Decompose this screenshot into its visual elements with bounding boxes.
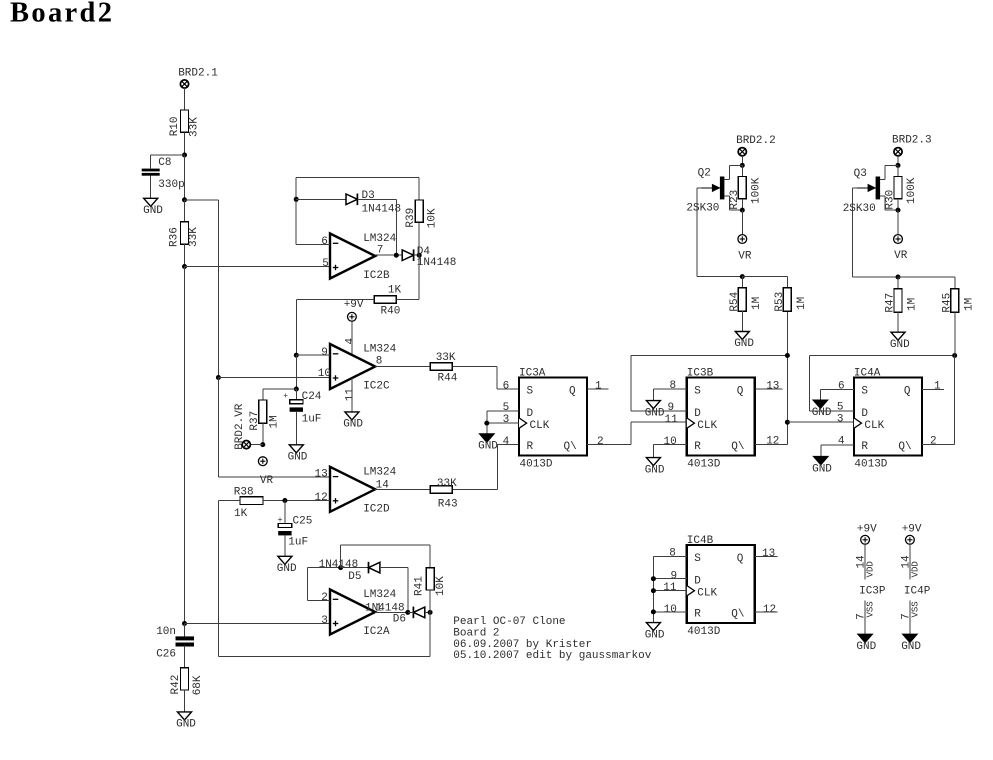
wire source xyxy=(880,195,885,197)
wire xyxy=(741,210,743,235)
power VR xyxy=(258,457,267,466)
wire CLK IC4B xyxy=(653,590,686,592)
svg-text:IC2D: IC2D xyxy=(363,503,390,515)
wire xyxy=(414,254,420,256)
svg-text:11: 11 xyxy=(663,582,677,594)
junction xyxy=(651,609,656,614)
wire xyxy=(884,196,886,210)
svg-text:4013D: 4013D xyxy=(687,459,720,471)
wire xyxy=(184,267,186,624)
wire xyxy=(219,500,241,502)
wire xyxy=(250,444,263,446)
wire xyxy=(263,500,330,502)
wire xyxy=(284,501,286,524)
svg-text:LM324: LM324 xyxy=(363,466,396,478)
resistor R30 xyxy=(894,177,902,199)
wire xyxy=(407,568,409,613)
svg-text:BRD2.2: BRD2.2 xyxy=(736,135,776,147)
ground xyxy=(289,445,303,453)
svg-text:Q\: Q\ xyxy=(731,609,744,621)
svg-text:R42: R42 xyxy=(170,675,182,695)
svg-text:GND: GND xyxy=(812,463,832,475)
svg-text:R30: R30 xyxy=(885,190,897,210)
svg-text:CLK: CLK xyxy=(864,420,884,432)
svg-text:VDD: VDD xyxy=(910,561,920,577)
svg-text:LM324: LM324 xyxy=(363,589,396,601)
svg-text:D6: D6 xyxy=(393,613,406,625)
transistor Q2 xyxy=(720,177,725,200)
svg-text:4: 4 xyxy=(344,338,356,345)
wire xyxy=(630,422,632,444)
junction xyxy=(651,576,656,581)
diode D5 1N4148 xyxy=(368,562,370,574)
svg-text:Q2: Q2 xyxy=(698,168,711,180)
svg-text:S: S xyxy=(527,386,534,398)
resistor R53 xyxy=(783,288,791,311)
wire R IC3A xyxy=(497,443,519,445)
resistor R41 xyxy=(426,568,434,590)
svg-text:10n: 10n xyxy=(156,626,176,638)
resistor R37 xyxy=(259,400,267,423)
wire xyxy=(897,156,899,166)
diode D3 1N4148 xyxy=(346,194,357,205)
wire xyxy=(808,356,810,411)
diode D6 1N4148 xyxy=(412,607,414,619)
wire CLK IC3B xyxy=(631,421,687,423)
wire xyxy=(452,366,497,368)
wire drain xyxy=(880,179,885,181)
wire xyxy=(184,624,186,637)
wire D feedback rail IC3B xyxy=(631,355,787,357)
junction xyxy=(282,498,287,503)
op-amp IC2A xyxy=(330,590,375,635)
svg-text:1K: 1K xyxy=(388,285,402,297)
wire xyxy=(898,276,955,278)
wire Qbar IC4B stub xyxy=(755,611,778,613)
power +9V IC3P xyxy=(861,535,870,544)
svg-text:GND: GND xyxy=(645,464,665,476)
junction xyxy=(896,163,901,168)
svg-text:R38: R38 xyxy=(234,486,254,498)
resistor R42 xyxy=(181,668,189,690)
wire xyxy=(418,177,420,200)
wire xyxy=(885,164,898,166)
wire D3 anode xyxy=(296,198,346,200)
wire xyxy=(819,389,821,400)
wire xyxy=(496,444,498,489)
resistor R39 xyxy=(415,200,423,222)
wire xyxy=(295,389,297,399)
ground xyxy=(735,332,749,340)
svg-text:11: 11 xyxy=(344,388,356,402)
wire feedback bottom xyxy=(219,656,431,658)
svg-text:R53: R53 xyxy=(774,292,786,312)
svg-text:IC4B: IC4B xyxy=(687,535,714,547)
svg-text:S: S xyxy=(694,553,701,565)
svg-text:GND: GND xyxy=(478,441,498,453)
svg-text:11: 11 xyxy=(665,414,679,426)
flip-flop IC3B xyxy=(687,378,755,456)
wire xyxy=(452,488,497,490)
wire xyxy=(296,298,374,300)
svg-text:+: + xyxy=(283,392,288,401)
junction xyxy=(896,275,901,280)
wire xyxy=(429,590,431,612)
pad BRD2.VR xyxy=(242,441,250,449)
junction xyxy=(182,197,187,202)
svg-text:12: 12 xyxy=(766,436,779,448)
svg-text:C8: C8 xyxy=(158,157,171,169)
capacitor C25 xyxy=(278,523,291,527)
svg-text:2SK30: 2SK30 xyxy=(686,202,719,214)
op-amp IC2B xyxy=(330,234,375,279)
wire S IC3B xyxy=(653,388,686,390)
wire xyxy=(729,209,742,211)
svg-text:R45: R45 xyxy=(942,293,954,313)
svg-text:13: 13 xyxy=(315,469,328,481)
svg-text:Q: Q xyxy=(737,553,744,565)
junction xyxy=(428,610,433,615)
svg-text:9: 9 xyxy=(668,402,675,414)
resistor R45 xyxy=(951,289,959,312)
svg-text:C25: C25 xyxy=(293,516,313,528)
svg-text:Board2: Board2 xyxy=(10,0,114,29)
wire gate xyxy=(697,187,702,189)
wire pin4 supply xyxy=(351,321,353,355)
wire xyxy=(786,311,788,444)
wire VDD xyxy=(909,544,911,579)
wire xyxy=(954,312,956,355)
svg-text:D: D xyxy=(861,408,868,420)
svg-text:VDD: VDD xyxy=(866,561,876,577)
wire xyxy=(897,199,899,210)
svg-text:3: 3 xyxy=(503,414,510,426)
svg-text:GND: GND xyxy=(645,407,665,419)
svg-text:10: 10 xyxy=(664,436,677,448)
wire xyxy=(853,276,898,278)
wire xyxy=(396,298,419,300)
svg-text:R23: R23 xyxy=(729,190,741,210)
wire VSS xyxy=(864,601,866,635)
wire pin6 xyxy=(296,244,330,246)
wire xyxy=(728,196,730,210)
wire S IC4A xyxy=(820,388,854,390)
svg-text:10K: 10K xyxy=(435,576,447,596)
svg-text:+9V: +9V xyxy=(344,299,364,311)
wire xyxy=(295,355,297,389)
junction xyxy=(740,163,745,168)
wire xyxy=(150,176,152,199)
ground xyxy=(891,332,905,340)
resistor R47 xyxy=(894,289,902,312)
wire xyxy=(696,188,698,277)
capacitor C26 xyxy=(176,636,195,640)
transistor Q3 xyxy=(876,177,881,200)
svg-text:C26: C26 xyxy=(156,649,176,661)
ground xyxy=(646,623,660,631)
svg-text:R10: R10 xyxy=(169,116,181,136)
svg-text:GND: GND xyxy=(277,563,297,575)
svg-text:Q3: Q3 xyxy=(854,168,867,180)
wire xyxy=(217,378,219,477)
svg-text:8: 8 xyxy=(670,380,677,392)
resistor R23 xyxy=(738,177,746,199)
svg-text:GND: GND xyxy=(143,205,163,217)
svg-text:R41: R41 xyxy=(414,576,426,596)
wire D IC3B xyxy=(631,410,687,412)
wire xyxy=(295,177,297,244)
wire xyxy=(897,210,899,235)
diode D4 1N4148 xyxy=(402,250,413,261)
svg-text:1N4148: 1N4148 xyxy=(362,203,402,215)
wire R IC3B xyxy=(653,443,686,445)
wire xyxy=(150,155,152,169)
wire xyxy=(897,277,899,289)
svg-text:Q\: Q\ xyxy=(898,441,911,453)
ground xyxy=(814,457,828,465)
wire drain xyxy=(724,179,729,181)
wire xyxy=(496,367,498,390)
wire xyxy=(295,299,297,355)
capacitor C8 xyxy=(142,169,160,172)
svg-text:1M: 1M xyxy=(751,297,763,310)
svg-text:LM324: LM324 xyxy=(363,233,396,245)
junction xyxy=(405,610,410,615)
wire xyxy=(395,199,397,255)
svg-text:9: 9 xyxy=(671,570,678,582)
svg-text:S: S xyxy=(694,386,701,398)
wire xyxy=(652,389,654,401)
svg-text:R: R xyxy=(527,441,534,453)
wire Qbar IC3A xyxy=(587,443,631,445)
wire feedback top xyxy=(296,176,419,178)
svg-text:+9V: +9V xyxy=(857,524,877,536)
junction xyxy=(182,621,187,626)
svg-text:12: 12 xyxy=(315,492,328,504)
junction xyxy=(417,253,422,258)
wire xyxy=(820,445,822,457)
junction xyxy=(260,442,265,447)
svg-text:D5: D5 xyxy=(348,571,361,583)
wire output IC2A xyxy=(375,611,408,613)
wire xyxy=(652,557,654,623)
svg-text:1K: 1K xyxy=(234,508,248,520)
junction xyxy=(294,353,299,358)
wire xyxy=(897,165,899,176)
svg-text:1: 1 xyxy=(934,381,941,393)
svg-text:Q: Q xyxy=(569,386,576,398)
resistor R44 xyxy=(430,363,452,371)
svg-text:IC2A: IC2A xyxy=(363,626,390,638)
svg-text:5: 5 xyxy=(322,258,329,270)
svg-text:6: 6 xyxy=(321,236,328,248)
svg-text:Q\: Q\ xyxy=(731,441,744,453)
wire xyxy=(954,277,956,289)
wire xyxy=(741,199,743,210)
svg-text:CLK: CLK xyxy=(697,420,717,432)
junction xyxy=(394,253,399,258)
svg-text:7: 7 xyxy=(900,613,912,620)
svg-text:330p: 330p xyxy=(158,179,184,191)
svg-text:Q\: Q\ xyxy=(564,441,577,453)
svg-text:GND: GND xyxy=(812,407,832,419)
svg-text:1uF: 1uF xyxy=(288,536,308,548)
svg-text:+9V: +9V xyxy=(902,524,922,536)
svg-text:GND: GND xyxy=(734,338,754,350)
wire VDD xyxy=(864,544,866,579)
wire xyxy=(697,276,742,278)
junction xyxy=(182,264,187,269)
svg-text:33K: 33K xyxy=(436,352,456,364)
wire R IC4B xyxy=(653,611,686,613)
wire xyxy=(262,423,264,444)
junction xyxy=(785,353,790,358)
power VR xyxy=(894,235,903,244)
wire xyxy=(184,132,186,155)
svg-text:33K: 33K xyxy=(437,478,457,490)
wire xyxy=(852,188,854,277)
svg-text:2: 2 xyxy=(321,592,328,604)
wire xyxy=(340,545,342,567)
wire xyxy=(295,412,297,445)
svg-text:GND: GND xyxy=(343,419,363,431)
wire Qbar IC4A xyxy=(922,443,955,445)
wire gate xyxy=(853,187,858,189)
wire node pin5 IC2B xyxy=(185,266,331,268)
junction xyxy=(294,197,299,202)
svg-text:33K: 33K xyxy=(189,117,201,137)
wire pin2 xyxy=(308,600,330,602)
svg-text:GND: GND xyxy=(176,719,196,731)
svg-text:R43: R43 xyxy=(438,498,458,510)
wire node pin13 IC2D xyxy=(218,476,330,478)
resistor R10 xyxy=(181,110,189,132)
flip-flop IC4B xyxy=(687,545,755,623)
power +9V xyxy=(348,312,357,321)
wire output IC2B xyxy=(375,254,402,256)
svg-text:4013D: 4013D xyxy=(854,459,887,471)
wire xyxy=(184,200,186,222)
wire xyxy=(308,567,341,569)
ground xyxy=(646,401,660,409)
wire xyxy=(630,356,632,412)
ground xyxy=(646,458,660,466)
ground xyxy=(480,434,494,442)
svg-text:2: 2 xyxy=(930,436,937,448)
ground IC4P xyxy=(903,634,917,642)
svg-text:1N4148: 1N4148 xyxy=(319,559,359,571)
svg-text:GND: GND xyxy=(288,452,308,464)
wire Q IC4A stub xyxy=(922,388,944,390)
wire pin9 xyxy=(296,354,330,356)
svg-text:R39: R39 xyxy=(405,208,417,228)
wire Q IC3B stub xyxy=(755,388,783,390)
wire D3 cathode xyxy=(357,198,396,200)
wire xyxy=(262,389,264,400)
resistor R54 xyxy=(738,288,746,311)
wire xyxy=(284,535,286,556)
wire xyxy=(218,501,220,657)
svg-text:LM324: LM324 xyxy=(363,344,396,356)
wire xyxy=(729,164,742,166)
wire xyxy=(185,199,219,201)
op-amp IC2D xyxy=(330,467,375,512)
wire Q IC3A stub xyxy=(587,388,609,390)
junction xyxy=(484,421,489,426)
wire Qbar IC3B xyxy=(755,443,788,445)
svg-text:68K: 68K xyxy=(192,675,204,695)
svg-text:05.10.2007 edit by gaussmarkov: 05.10.2007 edit by gaussmarkov xyxy=(453,650,651,662)
wire xyxy=(741,165,743,176)
wire CLK IC4A xyxy=(787,421,854,423)
resistor R40 xyxy=(374,296,396,304)
svg-text:100K: 100K xyxy=(906,177,918,204)
wire VSS xyxy=(909,601,911,635)
junction xyxy=(338,565,343,570)
op-amp IC2C xyxy=(330,344,375,389)
svg-text:D: D xyxy=(527,408,534,420)
svg-text:13: 13 xyxy=(762,548,775,560)
svg-text:4: 4 xyxy=(838,436,845,448)
wire R IC4A xyxy=(821,444,854,446)
power +9V IC4P xyxy=(906,535,915,544)
svg-text:10: 10 xyxy=(318,368,331,380)
svg-text:VR: VR xyxy=(738,250,752,262)
svg-text:R54: R54 xyxy=(729,291,741,311)
svg-text:1M: 1M xyxy=(268,415,280,428)
wire D feedback rail IC4A xyxy=(809,355,954,357)
svg-text:GND: GND xyxy=(645,629,665,641)
svg-text:10K: 10K xyxy=(426,208,438,228)
resistor R36 xyxy=(181,222,189,244)
svg-text:7: 7 xyxy=(856,613,868,620)
svg-text:3: 3 xyxy=(837,414,844,426)
flip-flop IC4A xyxy=(854,378,922,456)
wire output IC2C xyxy=(375,366,430,368)
svg-text:R: R xyxy=(694,609,701,621)
pad BRD2.1 xyxy=(180,80,188,88)
svg-text:IC4A: IC4A xyxy=(854,367,881,379)
svg-text:2SK30: 2SK30 xyxy=(843,203,876,215)
svg-text:+: + xyxy=(278,516,283,525)
svg-text:C24: C24 xyxy=(302,391,322,403)
wire xyxy=(728,165,730,179)
svg-text:VR: VR xyxy=(260,475,274,487)
junction xyxy=(740,274,745,279)
svg-text:D: D xyxy=(694,576,701,588)
svg-text:4: 4 xyxy=(503,436,510,448)
wire xyxy=(184,155,186,200)
wire xyxy=(897,312,899,332)
wire xyxy=(741,311,743,331)
ground xyxy=(813,400,827,408)
flip-flop IC3A xyxy=(519,378,587,456)
junction xyxy=(216,375,221,380)
svg-text:12: 12 xyxy=(763,604,776,616)
svg-text:IC2C: IC2C xyxy=(363,381,390,393)
svg-text:4013D: 4013D xyxy=(687,626,720,638)
junction xyxy=(785,420,790,425)
svg-text:1M: 1M xyxy=(964,298,976,311)
wire xyxy=(429,612,431,656)
svg-text:IC3A: IC3A xyxy=(519,367,546,379)
wire node pin10 IC2C xyxy=(218,377,330,379)
svg-text:R36: R36 xyxy=(169,227,181,247)
svg-text:R: R xyxy=(861,441,868,453)
wire node pin3 IC2A xyxy=(185,623,331,625)
svg-text:4013D: 4013D xyxy=(520,459,553,471)
junction xyxy=(740,208,745,213)
